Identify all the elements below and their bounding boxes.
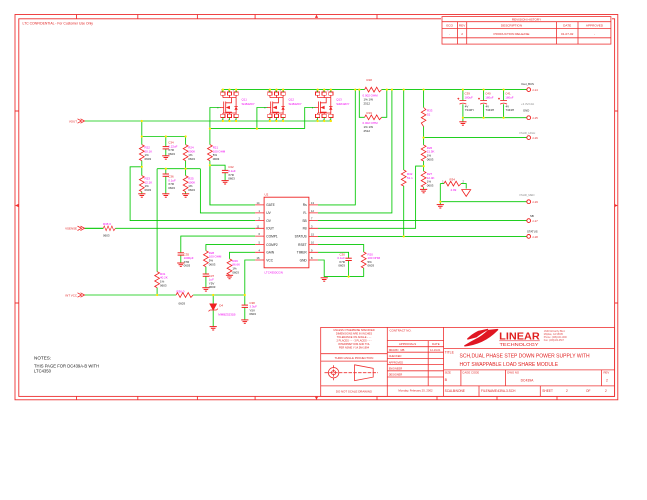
svg-text:DATE: DATE: [432, 342, 440, 346]
svg-text:Vout_BUS: Vout_BUS: [521, 82, 534, 86]
svg-text:0603: 0603: [145, 157, 152, 161]
ground C38: [241, 320, 248, 323]
ground C36: [162, 194, 169, 197]
svg-text:0603: 0603: [160, 283, 167, 287]
transistor Q11: [217, 89, 238, 123]
svg-text:NOTES:: NOTES:: [34, 356, 51, 361]
svg-text:PRODUCTION RELEASE: PRODUCTION RELEASE: [494, 32, 530, 36]
capacitor C35: [178, 253, 184, 255]
svg-text:R38 0: R38 0: [103, 222, 111, 226]
svg-text:Fax: (408)434-0507: Fax: (408)434-0507: [544, 340, 565, 342]
svg-text:IOUT: IOUT: [266, 227, 274, 231]
wire U2 pin12 to sense-: [318, 90, 392, 213]
label C38: [249, 301, 257, 316]
svg-text:DC439A: DC439A: [521, 379, 535, 383]
label C40: [485, 91, 494, 112]
svg-text:FILENAME:: FILENAME:: [481, 389, 498, 393]
svg-text:0603: 0603: [209, 285, 216, 289]
terminal J-19: [527, 200, 531, 204]
resistor R34: [444, 181, 461, 186]
wire R22-R23 node: [141, 161, 143, 176]
svg-text:VOUT: VOUT: [69, 119, 77, 123]
resistor R36: [176, 293, 193, 298]
capacitor C41: [498, 98, 507, 104]
capacitor C36: [163, 174, 169, 176]
svg-text:COMP2: COMP2: [266, 243, 278, 247]
svg-text:J-19: J-19: [532, 200, 538, 204]
svg-text:2: 2: [606, 379, 608, 383]
svg-text:439A-3.SCH: 439A-3.SCH: [498, 389, 517, 393]
wire Q11 gate: [210, 108, 221, 129]
svg-text:CHECKED: CHECKED: [389, 354, 402, 358]
svg-text:VCC: VCC: [266, 258, 273, 262]
resistor R25: [183, 176, 188, 192]
svg-text:0603: 0603: [228, 177, 235, 181]
wire C39 leads: [462, 90, 464, 122]
ground C34: [162, 156, 169, 159]
svg-text:2512: 2512: [364, 129, 371, 133]
svg-text:7343H: 7343H: [465, 108, 474, 112]
border zone ticks top: [77, 15, 378, 19]
wire R22 top lead: [141, 137, 143, 145]
svg-text:UNLESS OTHERWISE SPECIFIED: UNLESS OTHERWISE SPECIFIED: [333, 328, 374, 332]
svg-text:J-15: J-15: [532, 116, 538, 120]
svg-text:LTC4350CGN: LTC4350CGN: [265, 271, 283, 275]
junction dots gate net: [209, 128, 258, 167]
wire C40 leads: [483, 90, 485, 118]
col1 rows: [321, 354, 388, 386]
svg-text:TOLERANCE ON ANGLE - - -: TOLERANCE ON ANGLE - - -: [337, 335, 372, 339]
svg-text:0603: 0603: [179, 301, 186, 305]
wire J-19 node gnd lead: [439, 202, 441, 205]
svg-text:DATE: DATE: [563, 24, 571, 28]
wire R34 left to J-19 node: [439, 184, 441, 202]
wire U2 pin13 to sense+: [318, 90, 355, 205]
border inner rect: [19, 19, 615, 397]
wire INTVCC rail: [85, 294, 245, 296]
wire divider top rail: [142, 121, 186, 137]
svg-text:R18: R18: [367, 78, 373, 82]
svg-text:STATUS: STATUS: [527, 230, 538, 234]
svg-text:APPROVALS: APPROVALS: [399, 342, 416, 346]
wire J-19 net: [440, 201, 526, 203]
label R33: [427, 109, 433, 117]
svg-text:TIMER: TIMER: [297, 251, 308, 255]
svg-text:LTC4350: LTC4350: [34, 369, 52, 374]
wire R29 bottom: [229, 274, 231, 277]
wire R21 top lead: [209, 129, 211, 145]
wire C30 bottom: [348, 261, 350, 277]
svg-text:0603: 0603: [188, 157, 195, 161]
capacitor C40: [478, 98, 487, 104]
border zone ticks left: [15, 111, 19, 303]
svg-text:SB: SB: [530, 214, 534, 218]
label Q12: [289, 98, 302, 106]
svg-text:180uF: 180uF: [465, 95, 474, 99]
junction dots divider rails: [141, 120, 187, 170]
ground U2 GND: [321, 278, 328, 281]
wire R32 chain: [403, 90, 405, 237]
svg-text:VSHR_MED: VSHR_MED: [519, 193, 535, 197]
resistor R22: [139, 145, 144, 161]
U2 pin names: [266, 203, 307, 262]
ground J-19 node: [437, 205, 444, 208]
terminal J-16: [527, 136, 531, 140]
svg-text:GAIN: GAIN: [266, 251, 274, 255]
terminal J-15: [527, 116, 531, 120]
junction dots Vout_BUS rail: [354, 89, 505, 91]
ground D4: [210, 327, 217, 330]
label R38: [103, 222, 111, 238]
TITLE-BLOCK: [321, 327, 615, 396]
svg-text:INT VCC: INT VCC: [65, 293, 78, 297]
label C41: [505, 91, 514, 112]
U2 left pin stubs: [255, 205, 264, 260]
wire J-16 net: [424, 137, 527, 139]
wire TIMER to C30: [318, 252, 349, 258]
terminal J-18: [527, 235, 531, 239]
junction dots feedback divider: [423, 137, 425, 168]
arrow symbol below R34: [462, 190, 471, 197]
svg-text:Si4842DY: Si4842DY: [289, 102, 302, 106]
label R34: [442, 177, 464, 192]
svg-text:VSHR_HIGH: VSHR_HIGH: [519, 131, 535, 135]
op-amp U2 LTC4350CGN box: [264, 197, 309, 268]
svg-text:SCH,DUAL PHASE STEP DOWN POWER: SCH,DUAL PHASE STEP DOWN POWER SUPPLY WI…: [460, 354, 591, 360]
SHEET-FRAME: [15, 15, 618, 401]
svg-text:0603: 0603: [427, 157, 434, 161]
title / size / sheet texts: [445, 351, 610, 393]
wire C35 bottom: [180, 255, 182, 263]
svg-text:0603: 0603: [249, 312, 256, 316]
wire R26 leads: [423, 138, 425, 167]
wire GATE pin net: [210, 165, 255, 205]
label C30: [337, 252, 345, 267]
label R27: [427, 172, 435, 187]
svg-text:REVISION HISTORY: REVISION HISTORY: [512, 18, 541, 22]
wire IOUT net from R38: [85, 227, 256, 229]
U2 right pin stubs: [309, 205, 318, 260]
svg-text:7343H: 7343H: [486, 108, 495, 112]
wire SB net: [318, 220, 527, 222]
svg-text:SB: SB: [302, 219, 306, 223]
svg-text:J-16: J-16: [532, 136, 538, 140]
wire STATUS net: [318, 235, 527, 237]
svg-text:Milpitas, CA 95035: Milpitas, CA 95035: [544, 333, 564, 336]
label R31: [160, 272, 168, 287]
svg-text:MB: MB: [401, 348, 405, 352]
capacitor C34: [163, 147, 169, 149]
svg-text:Phone: (408)432-1900: Phone: (408)432-1900: [544, 337, 568, 339]
svg-text:INTERPRET DIM AND TOL: INTERPRET DIM AND TOL: [338, 342, 370, 346]
wire gate rail: [210, 128, 305, 130]
node INTVCC input arrow: [78, 293, 85, 297]
U2 pin numbers: [257, 201, 315, 260]
svg-text:0603: 0603: [168, 152, 175, 156]
SCHEMATIC-TEXT: [65, 78, 538, 316]
svg-text:THIRD ANGLE PROJECTION: THIRD ANGLE PROJECTION: [335, 356, 374, 360]
junction dot STATUS pullup: [403, 235, 405, 237]
resistor R33: [421, 108, 426, 127]
label C32: [228, 165, 236, 180]
wire C38 leads: [244, 295, 246, 320]
resistor R24: [183, 145, 188, 161]
svg-text:LTC CONFIDENTIAL - For Custome: LTC CONFIDENTIAL - For Customer Use Only: [23, 22, 94, 26]
svg-text:0603: 0603: [188, 188, 195, 192]
SCHEMATIC-PARTS: [78, 87, 531, 330]
svg-text:SHEET: SHEET: [542, 389, 553, 393]
resistor R32: [401, 170, 406, 186]
tolerance note block: [333, 328, 374, 393]
resistor R38: [103, 226, 115, 231]
wire R33 chain: [423, 90, 425, 138]
svg-text:+3.3V/10A: +3.3V/10A: [521, 102, 534, 106]
svg-text:0603: 0603: [145, 188, 152, 192]
svg-text:7343H: 7343H: [506, 108, 515, 112]
svg-text:51.1: 51.1: [407, 176, 413, 180]
ground C39: [459, 122, 466, 125]
svg-text:MMBZ5231B: MMBZ5231B: [218, 313, 235, 317]
capacitor C37: [203, 274, 209, 276]
svg-text:J-17: J-17: [532, 219, 538, 223]
svg-text:CAGE CODE: CAGE CODE: [462, 370, 479, 374]
svg-text:12-19-01: 12-19-01: [430, 348, 441, 352]
svg-text:GND: GND: [523, 109, 529, 113]
svg-text:0603: 0603: [368, 264, 375, 268]
svg-text:THIS PAGE FOR DC439A-B WITH: THIS PAGE FOR DC439A-B WITH: [34, 363, 99, 368]
svg-text:TECHNOLOGY: TECHNOLOGY: [500, 342, 539, 347]
label C37: [209, 274, 216, 289]
svg-text:-: -: [449, 32, 450, 36]
wire Q12 gate: [257, 108, 268, 129]
capacitor C39: [457, 98, 466, 104]
ground C32: [222, 181, 229, 184]
wire C34 bottom: [165, 149, 167, 156]
contract / approvals texts: [389, 329, 441, 393]
svg-text:R36 0: R36 0: [177, 289, 185, 293]
svg-text:APPROVED: APPROVED: [586, 24, 604, 28]
svg-text:0603: 0603: [209, 262, 216, 266]
svg-text:DWG NO: DWG NO: [507, 370, 520, 374]
wire gate node to C32: [210, 165, 225, 170]
wire VOUT source rail: [85, 120, 333, 122]
svg-text:GND: GND: [300, 258, 308, 262]
wire R31 chain: [156, 169, 158, 295]
SCHEMATIC-WIRES: [85, 90, 527, 327]
svg-text:180uF: 180uF: [505, 95, 514, 99]
svg-text:ECO: ECO: [446, 24, 453, 28]
label C35: [184, 252, 194, 267]
col2 rows: [387, 341, 443, 386]
svg-text:0603: 0603: [103, 234, 110, 238]
svg-text:0603: 0603: [168, 186, 175, 190]
label Q13: [336, 98, 349, 106]
wire R24 bottom lead: [185, 161, 187, 176]
col3 rows: [444, 349, 615, 386]
label R36: [177, 289, 186, 305]
wire GAIN to R29: [230, 252, 256, 258]
svg-text:GATE: GATE: [266, 203, 274, 207]
label R32: [407, 172, 413, 180]
wire R28 to C37: [205, 267, 207, 274]
LINEAR TECHNOLOGY logotype: [499, 332, 540, 348]
svg-text:Monday, February 25, 2002: Monday, February 25, 2002: [398, 389, 433, 393]
label R26: [427, 146, 435, 161]
svg-text:DRAWN: DRAWN: [389, 348, 399, 352]
svg-text:PER ASME Y-14.5M-1994: PER ASME Y-14.5M-1994: [339, 346, 370, 350]
svg-text:01-07-02: 01-07-02: [561, 32, 574, 36]
border center arrows: [15, 15, 618, 401]
LT address: [544, 330, 568, 342]
svg-text:0603: 0603: [232, 270, 239, 274]
label R21: [213, 146, 226, 161]
wire RSET to R20: [318, 245, 364, 252]
resistor R29: [227, 259, 232, 275]
wire R27 leads: [423, 166, 425, 189]
wire R34 leads: [440, 184, 466, 189]
svg-text:REV: REV: [459, 24, 466, 28]
LT logo mark: [465, 330, 498, 346]
wire D4 leads: [212, 295, 214, 327]
wire C37 bottom: [205, 276, 207, 287]
svg-text:0603: 0603: [427, 184, 434, 188]
resistor R18: [365, 87, 382, 92]
wire VCC pin drop: [245, 260, 255, 295]
label R20: [368, 252, 381, 267]
label R25: [188, 177, 195, 192]
svg-text:J-18: J-18: [532, 235, 538, 239]
svg-text:=NONE: =NONE: [454, 389, 465, 393]
terminal J-14: [527, 88, 531, 92]
svg-text:SIZE: SIZE: [445, 370, 451, 374]
svg-text:0603: 0603: [184, 264, 191, 268]
wire FB net: [318, 166, 424, 228]
svg-text:51: 51: [427, 113, 431, 117]
svg-text:Rs: Rs: [303, 203, 307, 207]
junction dot U2 gnd rail: [348, 276, 350, 278]
wire R24 top lead: [185, 137, 187, 145]
resistor R23: [139, 176, 144, 192]
resistor R20: [361, 252, 366, 268]
wire R21 bottom to gate node: [209, 161, 211, 205]
svg-text:R19: R19: [367, 111, 373, 115]
svg-text:J-14: J-14: [532, 88, 538, 92]
resistor R31: [155, 272, 160, 288]
terminal J-17: [527, 219, 531, 223]
svg-text:DESCRIPTION: DESCRIPTION: [501, 24, 522, 28]
ground R23: [138, 194, 145, 197]
third angle projection symbol: [325, 365, 379, 381]
label C39: [465, 91, 474, 112]
wire output cap bottoms: [463, 117, 527, 119]
wire R25 bottom: [185, 192, 187, 194]
svg-text:APPROVED: APPROVED: [389, 360, 404, 364]
node VOUT input arrow: [78, 119, 85, 123]
label R19: [363, 111, 379, 133]
svg-text:0603: 0603: [213, 157, 220, 161]
border zone ticks right: [615, 111, 618, 303]
label R23: [145, 177, 153, 192]
svg-text:2: 2: [461, 32, 463, 36]
svg-text:FB: FB: [303, 227, 307, 231]
wire COMP2 to R28: [206, 245, 255, 251]
svg-text:-: -: [594, 32, 595, 36]
wire R20 bottom: [363, 268, 365, 277]
wire drain bus (node Vout_BUS): [222, 89, 527, 91]
junction dots output cap gnd rail: [462, 117, 505, 119]
svg-text:STATUS: STATUS: [295, 235, 307, 239]
capacitor C38: [242, 305, 248, 307]
resistor R27: [421, 171, 426, 187]
wire C36 leads: [165, 169, 167, 194]
svg-text:RSET: RSET: [298, 243, 307, 247]
label R24: [188, 146, 195, 161]
svg-text:2 PLACES - - - 3 PLACES - -: 2 PLACES - - - 3 PLACES - - -: [336, 339, 371, 343]
svg-text:DIMENSIONS ARE IN INCHES: DIMENSIONS ARE IN INCHES: [336, 332, 372, 336]
resistor R28: [204, 251, 209, 267]
capacitor C30: [345, 258, 351, 260]
svg-text:U2: U2: [265, 193, 269, 197]
svg-text:Si4842DY: Si4842DY: [242, 102, 255, 106]
ground R29: [226, 275, 233, 278]
label R29: [232, 259, 240, 274]
svg-text:VSENSE: VSENSE: [65, 227, 77, 231]
svg-text:2512: 2512: [364, 101, 371, 105]
wire C41 leads: [503, 90, 505, 118]
label R28: [209, 251, 222, 266]
ground C37: [202, 288, 209, 291]
wire R19 parallel bridge: [359, 90, 387, 118]
svg-text:0603: 0603: [338, 264, 345, 268]
junction dots INTVCC rail: [156, 294, 246, 296]
notes: [34, 356, 99, 374]
wire divider2 rail: [157, 168, 200, 170]
node VSENSE input arrow: [78, 226, 85, 230]
label C34: [168, 141, 177, 156]
label Q11: [242, 98, 255, 106]
resistor R19: [365, 115, 382, 120]
wire Q13 gate: [305, 108, 316, 129]
wire C34 top lead: [165, 137, 167, 147]
ground R25: [182, 194, 189, 197]
ground R27: [420, 189, 427, 192]
diode D4 zener: [209, 304, 218, 312]
capacitor C32: [222, 170, 228, 172]
svg-text:180uF: 180uF: [485, 95, 494, 99]
svg-text:R34: R34: [450, 177, 456, 181]
junction dot J-19 node: [439, 201, 441, 203]
svg-text:4.99: 4.99: [451, 188, 457, 192]
svg-text:COMP1: COMP1: [266, 234, 278, 238]
label R22: [145, 146, 153, 161]
title block outline: [321, 327, 615, 396]
svg-text:1630 McCarthy Blvd.: 1630 McCarthy Blvd.: [544, 330, 566, 333]
border outer rect: [15, 15, 618, 400]
border zone ticks bottom: [77, 396, 558, 400]
wire R23 bottom: [141, 192, 143, 194]
svg-text:2: 2: [566, 389, 568, 393]
svg-text:DO NOT SCALE DRAWING: DO NOT SCALE DRAWING: [336, 389, 373, 393]
wire COMP1 to C35: [181, 236, 255, 253]
svg-text:TITLE: TITLE: [445, 351, 455, 355]
wire OV pin net: [130, 167, 255, 221]
svg-text:REV: REV: [604, 370, 610, 374]
ground C35: [177, 263, 184, 266]
wire U2 GND pin rail: [318, 260, 364, 277]
svg-text:D4: D4: [219, 303, 223, 307]
transistor Q12: [264, 89, 285, 123]
resistor R21: [208, 145, 213, 161]
